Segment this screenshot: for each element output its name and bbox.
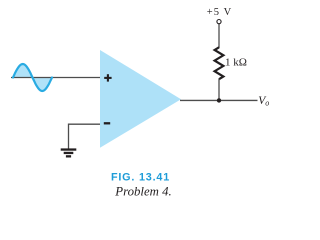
wire noninverting input xyxy=(11,77,100,79)
wire output xyxy=(180,99,258,101)
ground xyxy=(61,148,77,157)
resistor R1 xyxy=(215,47,224,79)
supply terminal circle xyxy=(217,20,221,24)
svg-text:Vo: Vo xyxy=(258,95,269,108)
wire inverting input xyxy=(69,124,101,148)
pin label plus xyxy=(104,74,111,81)
svg-text:+5 V: +5 V xyxy=(207,7,233,18)
sine source Vi fill xyxy=(13,64,52,91)
pin label minus xyxy=(104,122,110,124)
svg-text:1 kΩ: 1 kΩ xyxy=(225,57,247,69)
svg-text:Problem 4.: Problem 4. xyxy=(114,185,171,199)
wire supply upper xyxy=(218,24,220,48)
svg-text:FIG. 13.41: FIG. 13.41 xyxy=(111,172,170,184)
op-amp U1 xyxy=(100,50,181,148)
junction node xyxy=(217,98,221,102)
wire supply lower xyxy=(218,79,220,101)
sine source Vi curve xyxy=(13,64,52,91)
